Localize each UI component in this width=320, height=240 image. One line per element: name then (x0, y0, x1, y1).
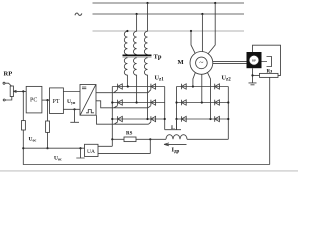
connector symbol at BR output (262, 57, 272, 67)
node: rail dot Uz2 right row3 (227, 118, 229, 120)
node: dot line A to motor (214, 2, 216, 4)
node: phase dot Uz1 row1 (127, 85, 129, 87)
wire: RP wiper to PC (13, 90, 26, 92)
potentiometer RP terminal bottom (3, 99, 5, 101)
wire: drop line B to Tp primary 2 (136, 14, 138, 32)
tachogenerator BR body (247, 52, 262, 68)
wire: RP bottom link (5, 97, 12, 101)
thyristor VS2 row1 right (151, 84, 156, 90)
regulator block PT (50, 88, 64, 114)
firing unit SIFU diagonal (80, 85, 95, 115)
wire: rotor lead 1 to Uz2 row1 (193, 73, 195, 87)
wire: Rz left lead (253, 74, 260, 76)
wire: UA to shunt right (98, 139, 150, 153)
node: dot reference sum node (22, 90, 24, 92)
svg-text:~: ~ (199, 58, 203, 67)
node: rail dot Uz1 left row2 (111, 101, 113, 103)
current sensor UA box (85, 144, 99, 156)
node: junction dot line C to Tp (126, 30, 128, 32)
transformer Tp primary winding 1 (124, 31, 127, 54)
node: rail dot Uz2 left row2 (175, 101, 177, 103)
diode VD4 row2 right (215, 100, 220, 106)
node: phase dot Uz2 row1 (192, 85, 194, 87)
resistor feedback R2 (46, 121, 50, 132)
wire: UA to shunt left (98, 139, 112, 146)
wire: motor feed from line C (191, 31, 195, 53)
thyristor VS1 row1 left (118, 84, 123, 90)
wire: mains phase line A (93, 2, 245, 4)
firing unit SIFU pulse mark (86, 110, 94, 113)
svg-text:Rз: Rз (267, 70, 273, 75)
svg-text:Uос: Uос (29, 137, 37, 143)
node: dot R1 to UA wire (22, 147, 24, 149)
regulator block PC (26, 86, 42, 113)
resistor feedback R1 (22, 121, 26, 130)
wire: rotor lead 3 to Uz2 row3 (208, 73, 211, 119)
transformer Tp core (123, 54, 152, 56)
svg-text:Uос: Uос (54, 156, 62, 162)
resistor Rz (260, 73, 279, 77)
wire: UA output to sum node (23, 147, 84, 149)
wire: gate line row 3 (97, 115, 151, 124)
node: dot line C to motor (190, 30, 192, 32)
diode VD1 row1 left (182, 84, 187, 90)
svg-text:RP: RP (4, 71, 13, 78)
wire: Uz1 row 3 (112, 118, 164, 120)
node: dot ground tap (73, 108, 75, 110)
wire: gate line row 2 (96, 101, 151, 108)
thyristor VS4 row2 right (151, 100, 156, 106)
firing unit SIFU dc mark (82, 87, 86, 89)
wire: BR top terminal loop (253, 45, 281, 75)
svg-text:L: L (171, 125, 175, 131)
node: dot line B to motor (201, 13, 203, 15)
potentiometer RP terminal top (3, 82, 5, 84)
wire: DC link from Uz1 left rail to shunt (112, 138, 124, 140)
svg-text:PT: PT (53, 99, 60, 105)
svg-text:UA: UA (87, 149, 95, 155)
wire: PT to SIFU lower (63, 108, 80, 110)
wire: secondary 2 to bridge row 2 (136, 77, 138, 103)
wire: PC to PT (42, 99, 50, 101)
wire: R2 down to UA wire (47, 132, 49, 148)
wire: Rz wiper down to feedback bus (269, 77, 271, 164)
tachogenerator BR circle (249, 55, 259, 65)
svg-text:БР: БР (252, 58, 256, 62)
wire: sum node down to resistor (22, 91, 24, 120)
inverter Uz1 right rail (164, 87, 166, 130)
node: rail dot Uz2 left row3 (175, 118, 177, 120)
svg-text:RS: RS (126, 132, 133, 137)
node: rail dot Uz2 right row2 (227, 101, 229, 103)
motor shaft to tacho (213, 60, 247, 62)
node: dot Uz1 left rail at DC link (111, 138, 113, 140)
resistor RS shunt (124, 137, 136, 142)
AC supply symbol ~ (75, 13, 82, 15)
diode VD2 row1 right (215, 84, 220, 90)
current arrow Idp (164, 143, 187, 146)
transformer Tp primary winding 3 (144, 31, 147, 54)
node: phase dot Uz2 row3 (209, 118, 211, 120)
thyristor VS6 row3 right (151, 116, 156, 122)
inverter Uz1 left rail (111, 87, 113, 140)
wire: branch down to R2 (47, 100, 49, 121)
node: dot PC-PT branch (46, 99, 48, 101)
wire: Uz1 row 2 (112, 102, 164, 104)
firing unit SIFU box (80, 85, 96, 116)
wire: inductor to Uz2 right rail (187, 138, 228, 140)
wire: secondary 3 to bridge row 3 (147, 77, 149, 119)
node: phase dot Uz1 row3 (146, 118, 148, 120)
wire: secondary 1 to bridge row 1 (126, 77, 128, 87)
wire: RP top link (5, 83, 12, 86)
diode VD3 row2 left (182, 100, 187, 106)
wire: gate line row 1 (96, 90, 151, 93)
wire: Uz2 row 3 (177, 118, 229, 120)
wire: shunt to inductor (136, 138, 166, 140)
motor M stator circle (190, 52, 213, 75)
page rule line (0, 170, 298, 172)
node: junction dot line B to Tp (136, 13, 138, 15)
wire: Uz2 left rail lower segment (176, 119, 178, 130)
transformer Tp secondary winding 2 (134, 58, 137, 77)
svg-text:Tp: Tp (154, 54, 162, 61)
ground symbol at Uup (70, 109, 79, 122)
node: rail dot Uz1 right row3 (164, 118, 166, 120)
transformer Tp primary winding 2 (134, 31, 137, 54)
svg-text:Uуп: Uуп (67, 99, 76, 105)
wire: drop line A to Tp primary 3 (147, 3, 149, 32)
node: phase dot Uz1 row2 (136, 101, 138, 103)
svg-text:M: M (178, 59, 184, 66)
wire: rotor lead 2 to Uz2 row2 (201, 74, 203, 102)
wire: R1 to bus corner (22, 130, 25, 165)
potentiometer RP body (10, 86, 13, 97)
ground symbol at BR (249, 83, 257, 85)
wire: Uz2 row 1 (177, 86, 229, 88)
transformer Tp secondary winding 1 (124, 58, 127, 77)
node: rail dot Uz1 left row3 (111, 118, 113, 120)
wire: BR bottom to ground (252, 68, 254, 83)
node: dot R2 to UA wire (46, 147, 48, 149)
wire: Uz1 row 1 (112, 86, 164, 88)
wire: tie bar Uz1 right rail to Uz2 left rail (165, 129, 181, 131)
wire: feedback bus (24, 164, 270, 166)
ground symbol at UA (76, 148, 84, 158)
rectifier Uz2 left rail (176, 87, 178, 130)
svg-text:PC: PC (30, 98, 37, 104)
node: dot UA ground tap (79, 147, 81, 149)
wire: Uz2 row 2 (177, 102, 229, 104)
rectifier Uz2 right rail (227, 87, 229, 140)
diode VD6 row3 right (215, 116, 220, 122)
thyristor VS3 row2 left (118, 100, 123, 106)
node: phase dot Uz2 row2 (201, 101, 203, 103)
inductor L (166, 135, 187, 140)
motor M rotor circle (196, 57, 208, 69)
diode VD5 row3 left (182, 116, 187, 122)
wire: mains phase line B (93, 13, 245, 15)
wire: motor feed from line A (208, 3, 215, 54)
thyristor VS5 row3 left (118, 116, 123, 122)
wire: mains phase line C (93, 30, 245, 32)
node: dot BR ground and Rz (251, 74, 253, 76)
node: junction dot line A to Tp (146, 2, 148, 4)
transformer Tp secondary winding 3 (144, 58, 147, 77)
wire: motor feed from line B (201, 14, 203, 52)
wire: PT to SIFU upper (63, 91, 80, 93)
node: dot DC link branch to UA (149, 138, 151, 140)
